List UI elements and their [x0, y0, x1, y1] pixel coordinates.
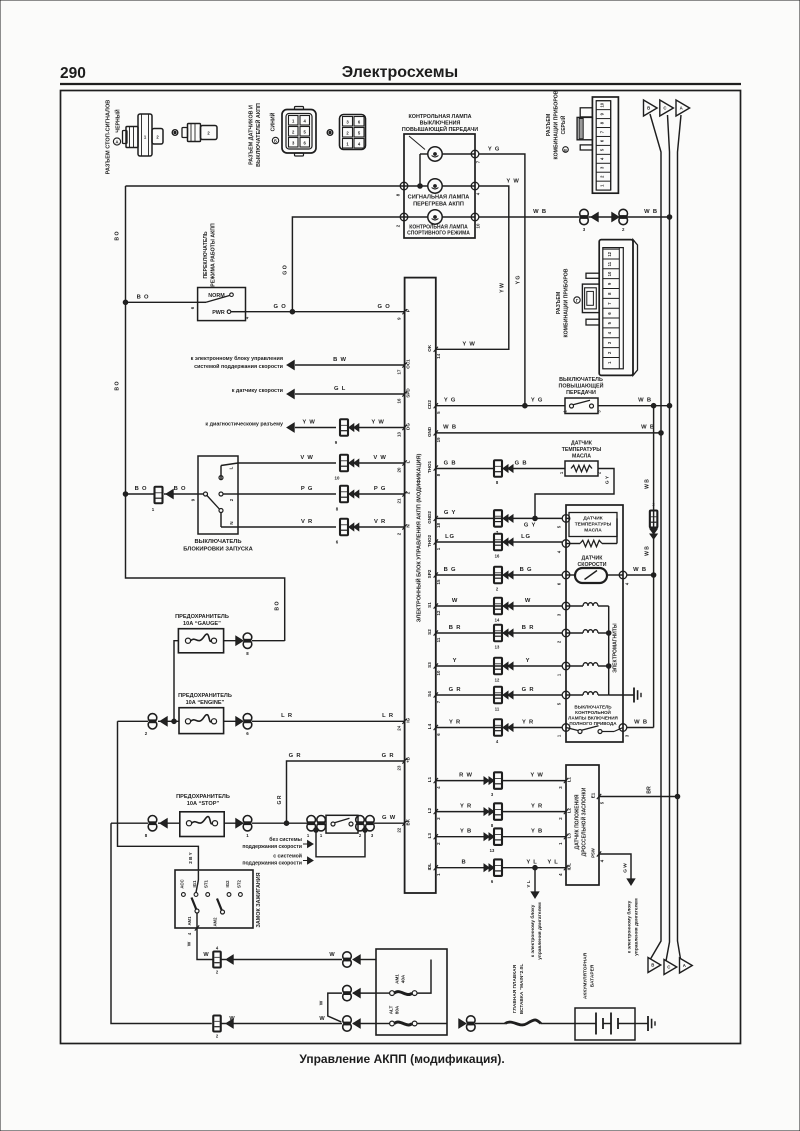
junction GY	[533, 516, 538, 521]
svg-text:ГЛАВНАЯ ПЛАВКАЯ: ГЛАВНАЯ ПЛАВКАЯ	[512, 964, 518, 1013]
TPS pin PSW/4	[597, 851, 601, 856]
svg-text:V R: V R	[374, 519, 386, 525]
svg-text:Y R: Y R	[522, 719, 534, 725]
svg-text:B R: B R	[522, 625, 534, 631]
svg-text:G R: G R	[449, 687, 462, 693]
wire WB ECU GND row	[436, 432, 661, 434]
wire YW lamp to ECU pin OK	[436, 186, 509, 349]
lamp L2 ATF overheat warning	[428, 179, 442, 193]
svg-text:Б: Б	[274, 139, 277, 144]
connector GAUGE out	[243, 633, 252, 642]
svg-text:14: 14	[436, 353, 441, 358]
svg-text:G R: G R	[522, 687, 535, 693]
svg-text:ДАТЧИК: ДАТЧИК	[583, 516, 602, 522]
off-page line A	[678, 115, 682, 959]
stop light switch box	[326, 815, 358, 833]
svg-text:ТЕМПЕРАТУРЫ: ТЕМПЕРАТУРЫ	[575, 522, 612, 528]
svg-text:Y L: Y L	[526, 880, 532, 887]
lamp box pin 4	[471, 182, 479, 190]
svg-text:ПРЕДОХРАНИТЕЛЬ: ПРЕДОХРАНИТЕЛЬ	[178, 693, 232, 699]
svg-text:17: 17	[397, 369, 402, 374]
svg-text:IG2: IG2	[225, 880, 230, 888]
svg-text:W B: W B	[533, 209, 547, 215]
svg-text:G Y: G Y	[444, 510, 456, 516]
junction BR/A-line	[675, 794, 680, 799]
svg-text:ПРЕДОХРАНИТЕЛЬ: ПРЕДОХРАНИТЕЛЬ	[175, 614, 229, 620]
svg-text:B O: B O	[135, 486, 148, 492]
ECU pin CD2/5	[434, 403, 438, 408]
transmission assembly box	[566, 505, 623, 742]
svg-text:S2: S2	[427, 629, 432, 635]
svg-text:ПОВЫШАЮЩЕЙ: ПОВЫШАЮЩЕЙ	[558, 382, 603, 390]
ECU pin GND/19	[434, 430, 438, 435]
lamp box pin 2	[400, 213, 408, 221]
wire battery to ground	[635, 1023, 648, 1025]
svg-text:ДРОССЕЛЬНОЙ ЗАСЛОНКИ: ДРОССЕЛЬНОЙ ЗАСЛОНКИ	[580, 787, 588, 856]
svg-text:CD2: CD2	[427, 400, 432, 410]
svg-text:ST1: ST1	[204, 879, 209, 887]
svg-text:IG1: IG1	[192, 880, 197, 888]
ECU pin DG/13	[402, 425, 406, 430]
wire BO riser	[126, 186, 285, 641]
svg-text:L1: L1	[567, 776, 572, 782]
off-page triangle A top	[676, 100, 690, 116]
svg-text:ПЕРЕДАЧИ: ПЕРЕДАЧИ	[566, 390, 596, 396]
fuse ENGINE 10A	[179, 708, 224, 734]
svg-text:РЕЖИМА РАБОТЫ АКПП: РЕЖИМА РАБОТЫ АКПП	[211, 223, 217, 287]
svg-text:ДАТЧИК: ДАТЧИК	[582, 556, 604, 562]
wire B/YL ECU IDL to TPS	[436, 867, 494, 869]
svg-text:БАТАРЕЯ: БАТАРЕЯ	[590, 964, 596, 987]
svg-text:B: B	[462, 860, 467, 866]
ignition contact AM1	[195, 909, 199, 913]
ECU pin S2/11	[434, 630, 438, 635]
svg-text:ПОЛНОГО ПРИВОДА: ПОЛНОГО ПРИВОДА	[569, 721, 617, 726]
svg-text:B W: B W	[333, 357, 347, 363]
ECU pin L1/4	[434, 778, 438, 783]
wire BG ECU SP2 to speed sensor	[436, 574, 562, 576]
wire PG start lock to ECU pin 2	[238, 493, 336, 495]
svg-text:ЭЛЕКТРОННЫЙ БЛОК УПРАВЛЕНИЯ АК: ЭЛЕКТРОННЫЙ БЛОК УПРАВЛЕНИЯ АКПП (МОДИФИ…	[415, 454, 423, 623]
svg-text:управления двигателем: управления двигателем	[635, 898, 640, 956]
svg-text:290: 290	[60, 65, 86, 82]
ECU pin L3/2	[434, 834, 438, 839]
svg-text:G L: G L	[334, 386, 346, 392]
ECU pin SP2/15	[434, 572, 438, 577]
svg-text:BK: BK	[406, 818, 411, 825]
svg-text:МАСЛА: МАСЛА	[584, 528, 602, 534]
svg-text:SP2: SP2	[427, 569, 432, 578]
svg-text:B O: B O	[275, 601, 281, 610]
svg-text:с системой: с системой	[273, 853, 302, 860]
label leader line	[409, 136, 425, 150]
svg-text:S1: S1	[427, 602, 432, 608]
svg-text:W: W	[319, 1016, 325, 1022]
connector ENGINE out	[243, 714, 252, 723]
wire GO mode switch to ECU pin P	[246, 311, 405, 313]
svg-text:Y R: Y R	[449, 719, 461, 725]
junction ENGINE row	[172, 719, 177, 724]
svg-text:P G: P G	[374, 486, 386, 492]
wire WB 4WD switch	[627, 727, 654, 729]
svg-text:L R: L R	[382, 713, 394, 719]
transmission pin 4	[562, 540, 570, 548]
connector A drawing	[138, 114, 152, 156]
svg-text:W: W	[319, 1000, 325, 1005]
svg-text:ЗАМОК ЗАЖИГАНИЯ: ЗАМОК ЗАЖИГАНИЯ	[256, 872, 262, 927]
svg-text:L R: L R	[281, 713, 293, 719]
wire GO riser to lamp pin 2	[292, 217, 404, 312]
svg-text:ПОВЫШАЮЩЕЙ ПЕРЕДАЧИ: ПОВЫШАЮЩЕЙ ПЕРЕДАЧИ	[402, 125, 478, 133]
svg-text:2: 2	[406, 491, 411, 494]
connector on diag row	[340, 419, 348, 436]
transmission pin 2	[562, 629, 570, 637]
svg-text:IG: IG	[406, 717, 411, 722]
main fusible link	[505, 1020, 541, 1025]
svg-text:Y L: Y L	[547, 860, 558, 866]
svg-text:ALT: ALT	[389, 1006, 394, 1015]
connector A mate drawing	[182, 128, 188, 138]
svg-text:L2: L2	[427, 807, 432, 813]
svg-text:N: N	[229, 521, 234, 524]
AM1 link wiring	[417, 960, 431, 994]
ECU pin OK/14	[434, 347, 438, 352]
bypass link	[316, 829, 365, 857]
svg-text:ВЫКЛЮЧАТЕЛЬ: ВЫКЛЮЧАТЕЛЬ	[195, 539, 242, 545]
battery cells	[575, 1023, 596, 1025]
off-page triangle A bottom	[680, 958, 693, 973]
svg-text:B O: B O	[115, 231, 121, 240]
wire WB lamp row	[479, 216, 580, 218]
svg-text:IDL: IDL	[567, 863, 572, 871]
connector B mate drawing (6-pin rear)	[340, 115, 366, 150]
wire W ECU to solenoid	[436, 605, 562, 607]
wire YW to diagnostic connector	[295, 427, 336, 429]
off-page triangle C top	[660, 100, 674, 116]
svg-text:ЛАМПЫ ВКЛЮЧЕНИЯ: ЛАМПЫ ВКЛЮЧЕНИЯ	[568, 716, 618, 721]
svg-text:23: 23	[397, 765, 402, 770]
svg-text:Y R: Y R	[531, 803, 543, 809]
off-page triangle C bottom	[664, 960, 677, 975]
svg-text:G Y: G Y	[524, 523, 536, 529]
svg-text:19: 19	[436, 437, 441, 442]
connector W row 1	[213, 952, 221, 968]
lamp box	[404, 134, 475, 238]
wire B R ECU to solenoid	[436, 632, 562, 634]
connector on L2 row	[484, 808, 489, 815]
ECU pin GND2/18	[434, 516, 438, 521]
svg-text:S4: S4	[427, 691, 432, 697]
throttle position sensor box	[566, 765, 599, 885]
ECU pin BK/22	[402, 821, 406, 826]
svg-text:ВЫКЛЮЧАТЕЛЕЙ АКПП: ВЫКЛЮЧАТЕЛЕЙ АКПП	[254, 103, 262, 167]
junction BO/NORM feed	[123, 300, 128, 305]
svg-text:Y W: Y W	[302, 420, 315, 426]
transmission pin 1 (4WD)	[562, 724, 570, 732]
svg-text:11: 11	[607, 261, 612, 266]
connector on BO row	[155, 487, 163, 504]
WB riser right	[653, 406, 655, 728]
svg-text:L3: L3	[427, 833, 432, 839]
lamp box pin 8	[400, 182, 408, 190]
svg-text:C: C	[663, 106, 666, 111]
svg-text:A: A	[680, 106, 683, 111]
wire WB speed sensor to riser	[627, 574, 654, 576]
off-page triangle B top	[644, 100, 658, 116]
svg-text:W: W	[525, 598, 531, 604]
svg-text:РАЗЪЕМ: РАЗЪЕМ	[546, 114, 552, 136]
svg-text:G O: G O	[273, 304, 286, 310]
fuse ENGINE wires	[118, 720, 149, 722]
svg-text:AM2: AM2	[213, 917, 218, 927]
svg-text:PSW: PSW	[591, 848, 596, 858]
transmission pin 1	[562, 662, 570, 670]
svg-text:10: 10	[599, 102, 604, 107]
svg-text:W: W	[203, 952, 209, 958]
fuse STOP 10A	[180, 812, 224, 837]
TPS pin L3/1	[564, 834, 568, 839]
wire GY oil temp sensor branch	[535, 469, 614, 519]
ECU pin OC1/17	[402, 362, 406, 367]
svg-text:БЛОКИРОВКИ ЗАПУСКА: БЛОКИРОВКИ ЗАПУСКА	[183, 547, 253, 553]
svg-text:10А “GAUGE”: 10А “GAUGE”	[183, 621, 221, 627]
ALT link left wire	[376, 1023, 390, 1025]
svg-text:+B: +B	[406, 756, 411, 763]
combination meter connector (12-pin)	[633, 240, 638, 376]
svg-text:2 В Y: 2 В Y	[188, 852, 193, 864]
svg-text:МАСЛА: МАСЛА	[572, 454, 591, 460]
svg-text:G B: G B	[444, 460, 457, 466]
svg-text:10А “ENGINE”: 10А “ENGINE”	[186, 700, 225, 706]
ECU pin L2/3	[434, 809, 438, 814]
svg-text:СИНИЙ: СИНИЙ	[269, 112, 277, 131]
ECU pin 2/21	[402, 491, 406, 496]
svg-text:B O: B O	[137, 295, 150, 301]
junction GO	[290, 309, 295, 314]
svg-text:L: L	[229, 466, 234, 469]
svg-text:40A: 40A	[401, 974, 406, 983]
svg-text:Y W: Y W	[371, 420, 384, 426]
svg-text:Y: Y	[453, 658, 458, 664]
svg-text:W B: W B	[641, 425, 655, 431]
lamp box pin 7	[471, 150, 479, 158]
mode switch NORM/PWR box	[198, 288, 246, 321]
svg-text:Y L: Y L	[526, 860, 537, 866]
svg-text:Y G: Y G	[516, 276, 522, 285]
svg-text:Y W: Y W	[506, 179, 519, 185]
wire BO to mode switch	[126, 301, 198, 303]
lamp L3 sport mode indicator	[428, 210, 442, 224]
junction BO/start-lock feed	[123, 492, 128, 497]
svg-text:AM1: AM1	[395, 974, 400, 984]
fusible link box	[376, 949, 447, 1035]
connector on L3 row	[484, 833, 489, 840]
svg-text:10А “STOP”: 10А “STOP”	[187, 801, 220, 807]
svg-text:поддержания скорости: поддержания скорости	[242, 844, 302, 850]
junction WB riser	[651, 573, 656, 578]
TPS pin L1/3	[564, 778, 568, 783]
svg-text:КОНТРОЛЬНОЙ: КОНТРОЛЬНОЙ	[575, 708, 611, 715]
svg-text:PWR: PWR	[212, 310, 225, 316]
wire to solenoid ground	[609, 694, 634, 696]
svg-text:поддержания скорости: поддержания скорости	[242, 861, 302, 867]
transmission pin 3 (4WD)	[619, 724, 627, 732]
fuse GAUGE wires	[224, 640, 243, 642]
svg-text:ВЫКЛЮЧАТЕЛЬ: ВЫКЛЮЧАТЕЛЬ	[574, 705, 612, 710]
border frame	[61, 91, 741, 1044]
oil temp sensor 2	[566, 517, 569, 519]
ground battery	[647, 1016, 649, 1031]
wire YG ECU CD2 to OD switch	[436, 405, 565, 407]
svg-text:G W: G W	[382, 815, 396, 821]
wire BR TPS E1 to off-page A	[599, 796, 678, 798]
svg-text:L2: L2	[567, 807, 572, 813]
svg-text:системой поддержания скорости: системой поддержания скорости	[194, 363, 283, 370]
connector A mate terminal	[172, 130, 178, 136]
transmission pin 5	[562, 691, 570, 699]
svg-text:Y G: Y G	[531, 398, 543, 404]
connector ENGINE in	[148, 714, 157, 723]
4WD indicator switch	[578, 730, 582, 734]
start lock switch contacts	[204, 492, 208, 496]
svg-text:В: В	[564, 148, 567, 153]
svg-text:ДАТЧИК: ДАТЧИК	[571, 441, 593, 447]
speed sensor	[575, 568, 607, 583]
wire WB OD switch to off-page lines	[598, 405, 670, 407]
svg-text:Y R: Y R	[460, 803, 472, 809]
svg-text:C: C	[667, 965, 670, 970]
wire BO to start lock switch	[126, 493, 154, 495]
ECU pin IG/24	[402, 719, 406, 724]
svg-text:B R: B R	[449, 625, 461, 631]
wire W ignition to fusible link	[197, 928, 213, 960]
wire YL to engine ECU	[534, 868, 536, 893]
svg-text:P: P	[406, 309, 411, 312]
transmission pin 5	[562, 515, 570, 523]
TPS pin E1/5	[597, 794, 601, 799]
battery box	[575, 1008, 635, 1040]
svg-text:Y G: Y G	[488, 147, 500, 153]
svg-text:W: W	[187, 941, 193, 946]
svg-text:СИГНАЛЬНАЯ ЛАМПА: СИГНАЛЬНАЯ ЛАМПА	[408, 195, 470, 201]
connector on GY row	[494, 510, 502, 527]
svg-text:GND: GND	[427, 426, 432, 437]
ignition switch box	[175, 870, 253, 928]
wire GW to ECU BK	[374, 822, 405, 824]
svg-text:G W: G W	[623, 863, 629, 873]
svg-text:P G: P G	[301, 486, 313, 492]
svg-text:14: 14	[495, 618, 500, 623]
wire AM1 to pin 4	[196, 913, 198, 928]
fuse GAUGE 10A	[178, 629, 223, 653]
svg-text:к электронному блоку: к электронному блоку	[529, 904, 536, 957]
junction lamp feed	[418, 184, 423, 189]
ECU pin S4/7	[434, 692, 438, 697]
svg-text:к электронному блоку: к электронному блоку	[626, 900, 633, 953]
wire LG ECU THO2 to transmission pin 4	[436, 541, 562, 543]
connector on WB riser	[650, 511, 658, 528]
connector STOP out	[243, 816, 252, 825]
stop light switch connectors left	[307, 816, 316, 825]
off-page triangle B bottom	[648, 958, 661, 973]
wire G R ECU to solenoid	[436, 694, 562, 696]
svg-text:R W: R W	[459, 772, 473, 778]
solenoid coil 4	[566, 694, 583, 696]
svg-text:ВЫКЛЮЧАТЕЛЬ: ВЫКЛЮЧАТЕЛЬ	[559, 377, 603, 383]
connector B id circle	[272, 137, 278, 143]
ENGINE feed riser	[118, 721, 199, 871]
svg-text:L4: L4	[427, 723, 432, 729]
off-page line C	[666, 115, 670, 961]
svg-text:ЧЕРНЫЙ: ЧЕРНЫЙ	[114, 109, 122, 132]
connector W row 1b	[343, 952, 352, 961]
svg-text:без системы: без системы	[269, 836, 302, 843]
svg-text:W B: W B	[645, 546, 651, 556]
svg-text:АККУМУЛЯТОРНАЯ: АККУМУЛЯТОРНАЯ	[583, 952, 589, 999]
solenoid coil 2	[566, 632, 583, 634]
lamp L1 overdrive-off indicator	[428, 147, 442, 161]
svg-text:16: 16	[495, 554, 500, 559]
oil temp sensor 2 label box	[569, 513, 617, 537]
svg-text:КОМБИНАЦИИ ПРИБОРОВ: КОМБИНАЦИИ ПРИБОРОВ	[564, 268, 570, 337]
svg-text:ПРЕДОХРАНИТЕЛЬ: ПРЕДОХРАНИТЕЛЬ	[176, 794, 230, 800]
AM1 link left wire	[376, 992, 390, 994]
svg-text:13: 13	[490, 848, 495, 853]
svg-text:Электросхемы: Электросхемы	[342, 64, 458, 81]
svg-text:THO1: THO1	[427, 460, 432, 473]
svg-text:G R: G R	[289, 753, 302, 759]
svg-text:B G: B G	[520, 567, 533, 573]
svg-text:21: 21	[397, 498, 402, 503]
wire Y R ECU to TPS L2	[436, 811, 494, 813]
svg-text:GND2: GND2	[427, 511, 432, 524]
svg-text:ВЫКЛЮЧЕНИЯ: ВЫКЛЮЧЕНИЯ	[420, 121, 461, 127]
svg-text:B: B	[647, 106, 650, 111]
connector on LG row	[494, 534, 502, 551]
svg-text:THO2: THO2	[427, 534, 432, 547]
svg-text:16: 16	[397, 398, 402, 403]
lamp box pin 10	[471, 213, 479, 221]
svg-text:LG: LG	[445, 534, 455, 540]
ECU pin L/20	[402, 460, 406, 465]
svg-text:24: 24	[397, 725, 402, 730]
svg-text:B O: B O	[115, 381, 121, 390]
svg-text:DG: DG	[406, 423, 411, 430]
ECU pin THO2/1	[434, 539, 438, 544]
ECU pin THO1/8	[434, 465, 438, 470]
svg-text:11: 11	[495, 707, 500, 712]
svg-text:SPD: SPD	[406, 388, 411, 398]
svg-text:12: 12	[607, 251, 612, 256]
wire R W ECU to TPS L1	[436, 780, 494, 782]
combination meter connector grey (10-pin)	[592, 97, 618, 193]
connector on L1 row	[484, 777, 489, 784]
connector STOP in	[148, 816, 157, 825]
junction GR/STOP row	[284, 821, 289, 826]
svg-text:10: 10	[335, 476, 340, 481]
svg-text:G O: G O	[377, 304, 390, 310]
connector on VR row	[340, 519, 348, 536]
ECU pin N/2	[402, 524, 406, 529]
svg-text:Y: Y	[526, 658, 531, 664]
svg-text:A: A	[683, 963, 686, 968]
combination meter connector grey id circle	[563, 147, 569, 153]
wire GB ECU THO1 to oil temp sensor	[436, 468, 494, 470]
connector on GB row	[494, 460, 502, 477]
wire BO lamp row (to left riser)	[126, 185, 405, 187]
svg-text:10: 10	[607, 271, 612, 276]
wire YG lamp to junction	[479, 154, 525, 406]
